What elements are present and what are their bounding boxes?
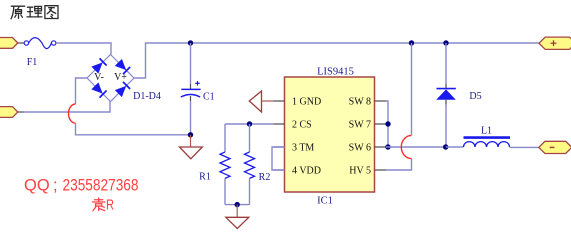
fuse F1 [24, 38, 56, 49]
port GND arrow at pin1 [249, 91, 273, 112]
wire SW6 rail to D5 bottom [386, 146, 446, 148]
node SW7 [385, 121, 390, 126]
pin stub of fuse [18, 42, 24, 44]
wire top rail V+ to output + [134, 43, 539, 78]
inductor L1 [464, 138, 511, 147]
svg-text:SW 8: SW 8 [349, 97, 371, 108]
diode D2 (upper-right edge, points to right corner) [115, 59, 130, 74]
wire C1 to ground rail [190, 101, 192, 135]
wire top rail to C1 [190, 43, 192, 84]
svg-text:HV 5: HV 5 [349, 166, 371, 177]
svg-text:IC1: IC1 [317, 196, 333, 207]
袁R red text: 袁 drawn strokes [93, 198, 106, 211]
resistor R1 [220, 152, 230, 178]
connector - (right bottom yellow) [539, 141, 571, 153]
wire R1 top lead [224, 124, 226, 152]
diode D5 [436, 43, 456, 147]
svg-text:R: R [106, 198, 114, 214]
node top-D5 [443, 40, 448, 45]
svg-text:4 VDD: 4 VDD [292, 166, 321, 177]
svg-text:1 GND: 1 GND [292, 97, 321, 108]
wire V- corner down to ground rail [76, 78, 88, 104]
wire to L1 [446, 146, 464, 148]
svg-text:D1-D4: D1-D4 [133, 91, 161, 102]
crossover hop arc (red) [69, 104, 76, 123]
diode D3 (lower-left edge, points to bottom corner) [91, 82, 106, 97]
node R bottom [235, 202, 240, 207]
node gnd-C1 [188, 132, 193, 137]
wire R2 bottom lead [249, 178, 251, 204]
svg-text:SW 6: SW 6 [349, 143, 371, 154]
wire L1 to output - [510, 146, 539, 148]
wire SW8 down to SW6 rail [386, 101, 388, 147]
svg-text:2 CS: 2 CS [292, 120, 312, 131]
wire continuing to bottom rail [76, 123, 191, 135]
node R2 top [247, 121, 252, 126]
wire HV5 up to top rail [386, 159, 412, 170]
svg-text:C1: C1 [203, 92, 215, 103]
ground (power gnd under C1) [180, 135, 203, 159]
diode D1 (upper-left edge, points to top corner) [91, 58, 106, 73]
pin stubs right [375, 100, 387, 102]
svg-text:LIS9415: LIS9415 [317, 67, 354, 78]
connector J-in-top (left top yellow) [0, 38, 18, 49]
svg-text:R1: R1 [199, 172, 211, 183]
svg-text:V-: V- [94, 72, 104, 83]
wire AC bottom to bridge bottom [18, 111, 24, 113]
svg-text:SW 7: SW 7 [349, 120, 371, 131]
svg-text:2355827368: 2355827368 [63, 177, 139, 195]
svg-text:QQ: QQ [24, 177, 50, 195]
wire pin2 CS to resistors [225, 123, 274, 125]
svg-text:L1: L1 [481, 126, 492, 137]
diode D4 (lower-right edge, points to right corner) [115, 82, 130, 97]
svg-text:3 TM: 3 TM [292, 143, 314, 154]
node SW6 [385, 144, 390, 149]
connector + (right top yellow) [539, 37, 571, 49]
node top-HV [409, 40, 414, 45]
connector J-in-bottom (left bottom yellow) [0, 107, 18, 118]
wire R2 top lead [249, 124, 251, 152]
wire bracket pin3 TM to pin4 VDD [272, 147, 285, 170]
capacitor C1 [181, 81, 201, 101]
svg-text:D5: D5 [469, 91, 481, 102]
pin stubs left [274, 100, 285, 102]
node D5 bottom [443, 144, 448, 149]
bridge D1-D4 diamond outline [87, 55, 134, 102]
svg-text:R2: R2 [259, 172, 271, 183]
wire R1 bottom lead [224, 178, 226, 204]
resistor R2 [245, 152, 255, 178]
svg-text:V+: V+ [114, 72, 127, 83]
node top-C1 [188, 40, 193, 45]
ground (under R1 R2) [226, 205, 249, 229]
wire joining R1 R2 bottoms [225, 204, 250, 206]
svg-text:;: ; [53, 177, 58, 195]
crossover hop arc (red) on HV wire [401, 135, 411, 158]
title 原理图 (drawn strokes) [11, 6, 58, 19]
wire fuse to bridge top [56, 43, 111, 55]
svg-text:F1: F1 [27, 57, 38, 68]
IC IC1 LIS9415 body [285, 77, 375, 192]
